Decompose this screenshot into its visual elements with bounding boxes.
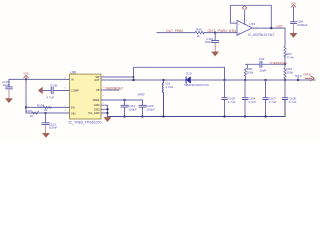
wire VIN (26, 112, 70, 114)
capacitor C106 COMP (43, 90, 51, 92)
svg-text:OUT: OUT (94, 78, 100, 82)
svg-text:VREF: VREF (138, 92, 146, 96)
wire divider down to cap row (284, 80, 286, 97)
svg-text:100k: 100k (247, 70, 254, 74)
svg-text:10uF: 10uF (3, 83, 10, 87)
capacitor C107 (265, 80, 267, 97)
wire riser to upper rail (134, 67, 225, 80)
capacitor C109 (224, 80, 226, 97)
node THERMDAC mid (284, 63, 286, 65)
capacitor C106b (142, 100, 144, 105)
ground left-pointing COMP (38, 87, 42, 93)
resistor R54 (284, 64, 286, 80)
capacitor C64 10pF (260, 61, 262, 67)
svg-text:5: 5 (103, 110, 105, 112)
svg-text:GND: GND (94, 103, 100, 107)
svg-text:VREF: VREF (93, 98, 100, 102)
tap wire VREF (285, 79, 315, 81)
node rail junctions (223, 79, 225, 81)
wire VREF (101, 99, 143, 101)
ground (290, 33, 297, 37)
svg-text:4.7uF: 4.7uF (289, 100, 297, 104)
svg-text:R107: R107 (25, 109, 33, 113)
svg-text:3: 3 (65, 110, 67, 112)
svg-text:10: 10 (30, 114, 34, 118)
resistor R107 (32, 111, 39, 114)
capacitor C105 (45, 113, 47, 122)
capacitor C103 (8, 79, 10, 86)
wire IN (9, 78, 70, 80)
svg-text:10pF: 10pF (260, 68, 267, 72)
net label THERMDAC on FB (101, 89, 119, 91)
pin numbers (65, 75, 105, 112)
svg-text:8: 8 (65, 87, 67, 89)
svg-text:2200pF: 2200pF (297, 23, 307, 27)
resistor R51 (284, 46, 286, 57)
svg-text:THERMDAC: THERMDAC (105, 87, 124, 91)
capacitor C108 (282, 98, 287, 100)
svg-text:4.7uH: 4.7uH (165, 85, 173, 89)
wire EN (26, 106, 70, 108)
svg-text:MBR230LSFDCT1G: MBR230LSFDCT1G (184, 83, 209, 87)
wire input OUT_PWM (157, 32, 195, 34)
svg-text:OUT: OUT (276, 24, 283, 28)
svg-text:C64: C64 (259, 57, 265, 61)
svg-text:VIN: VIN (71, 111, 75, 115)
svg-text:IN: IN (71, 78, 74, 82)
svg-text:C106: C106 (50, 84, 58, 88)
svg-text:4.7uF: 4.7uF (47, 96, 55, 100)
svg-text:R104: R104 (37, 103, 45, 107)
svg-text:77.4k: 77.4k (286, 56, 294, 60)
svg-text:1k: 1k (197, 34, 201, 38)
svg-text:OUT_PWM: OUT_PWM (166, 29, 183, 33)
diode D16 (186, 77, 190, 83)
ground IC (104, 117, 111, 121)
svg-text:IC_MCP6L01T4LT: IC_MCP6L01T4LT (248, 33, 275, 37)
feedback wire (230, 5, 271, 28)
svg-text:GND: GND (94, 107, 100, 111)
op-amp U39 (237, 20, 252, 35)
svg-text:VREF: VREF (303, 73, 311, 77)
resistor R50 stub (244, 64, 247, 80)
wire SW pin1 (101, 76, 134, 78)
svg-text:IC_TR83_TPS61070: IC_TR83_TPS61070 (69, 120, 102, 124)
wire divider from op-amp (284, 28, 286, 46)
node EN junction (25, 106, 27, 108)
node junction (214, 31, 216, 33)
wire to op-amp +in (204, 32, 237, 34)
capacitor C110 (214, 33, 216, 41)
svg-text:U38: U38 (70, 70, 76, 74)
resistor R104 (43, 107, 51, 109)
svg-text:100nF: 100nF (49, 126, 58, 130)
svg-text:100pF: 100pF (205, 40, 214, 44)
svg-text:PG_GND: PG_GND (89, 111, 100, 115)
svg-text:-: - (238, 22, 239, 26)
svg-text:+: + (238, 31, 240, 35)
capacitor C111 (124, 100, 126, 105)
svg-text:4.7uF: 4.7uF (248, 100, 256, 104)
capacitor C68 (291, 22, 297, 24)
pin names (71, 75, 100, 115)
svg-text:D19: D19 (186, 71, 192, 75)
ground (6, 99, 13, 103)
output wire (252, 27, 285, 29)
svg-text:4.7uF: 4.7uF (269, 100, 277, 104)
svg-text:100pF: 100pF (146, 108, 155, 112)
svg-text:COMP: COMP (71, 88, 79, 92)
svg-text:1M: 1M (44, 108, 49, 112)
svg-text:6: 6 (103, 95, 105, 97)
ground (43, 133, 50, 137)
wire SW pin2 / main rail left (101, 79, 186, 81)
svg-text:9: 9 (103, 103, 105, 105)
svg-text:EN: EN (71, 106, 75, 110)
svg-text:5: 5 (246, 20, 248, 22)
ground (212, 52, 219, 56)
svg-text:U39: U39 (250, 22, 256, 26)
IC U38 body (70, 74, 102, 119)
node output junction (270, 27, 272, 29)
svg-text:4.7uF: 4.7uF (228, 100, 236, 104)
svg-text:FB: FB (96, 88, 100, 92)
svg-text:R49: R49 (196, 27, 202, 31)
svg-text:100pF: 100pF (128, 108, 137, 112)
bottom rail (108, 100, 286, 117)
resistor R49 (195, 31, 204, 34)
main rail right of diode (191, 79, 285, 81)
wire THERMDAC upper (245, 63, 285, 65)
inductor L16 (162, 79, 164, 81)
svg-text:THERMDAC: THERMDAC (270, 61, 288, 65)
capacitor C104 (244, 80, 246, 97)
svg-text:100k: 100k (287, 70, 294, 74)
GND pins tie (101, 105, 108, 116)
wire VDD down to EN/VIN (25, 79, 27, 113)
node VIN junction (44, 112, 46, 114)
